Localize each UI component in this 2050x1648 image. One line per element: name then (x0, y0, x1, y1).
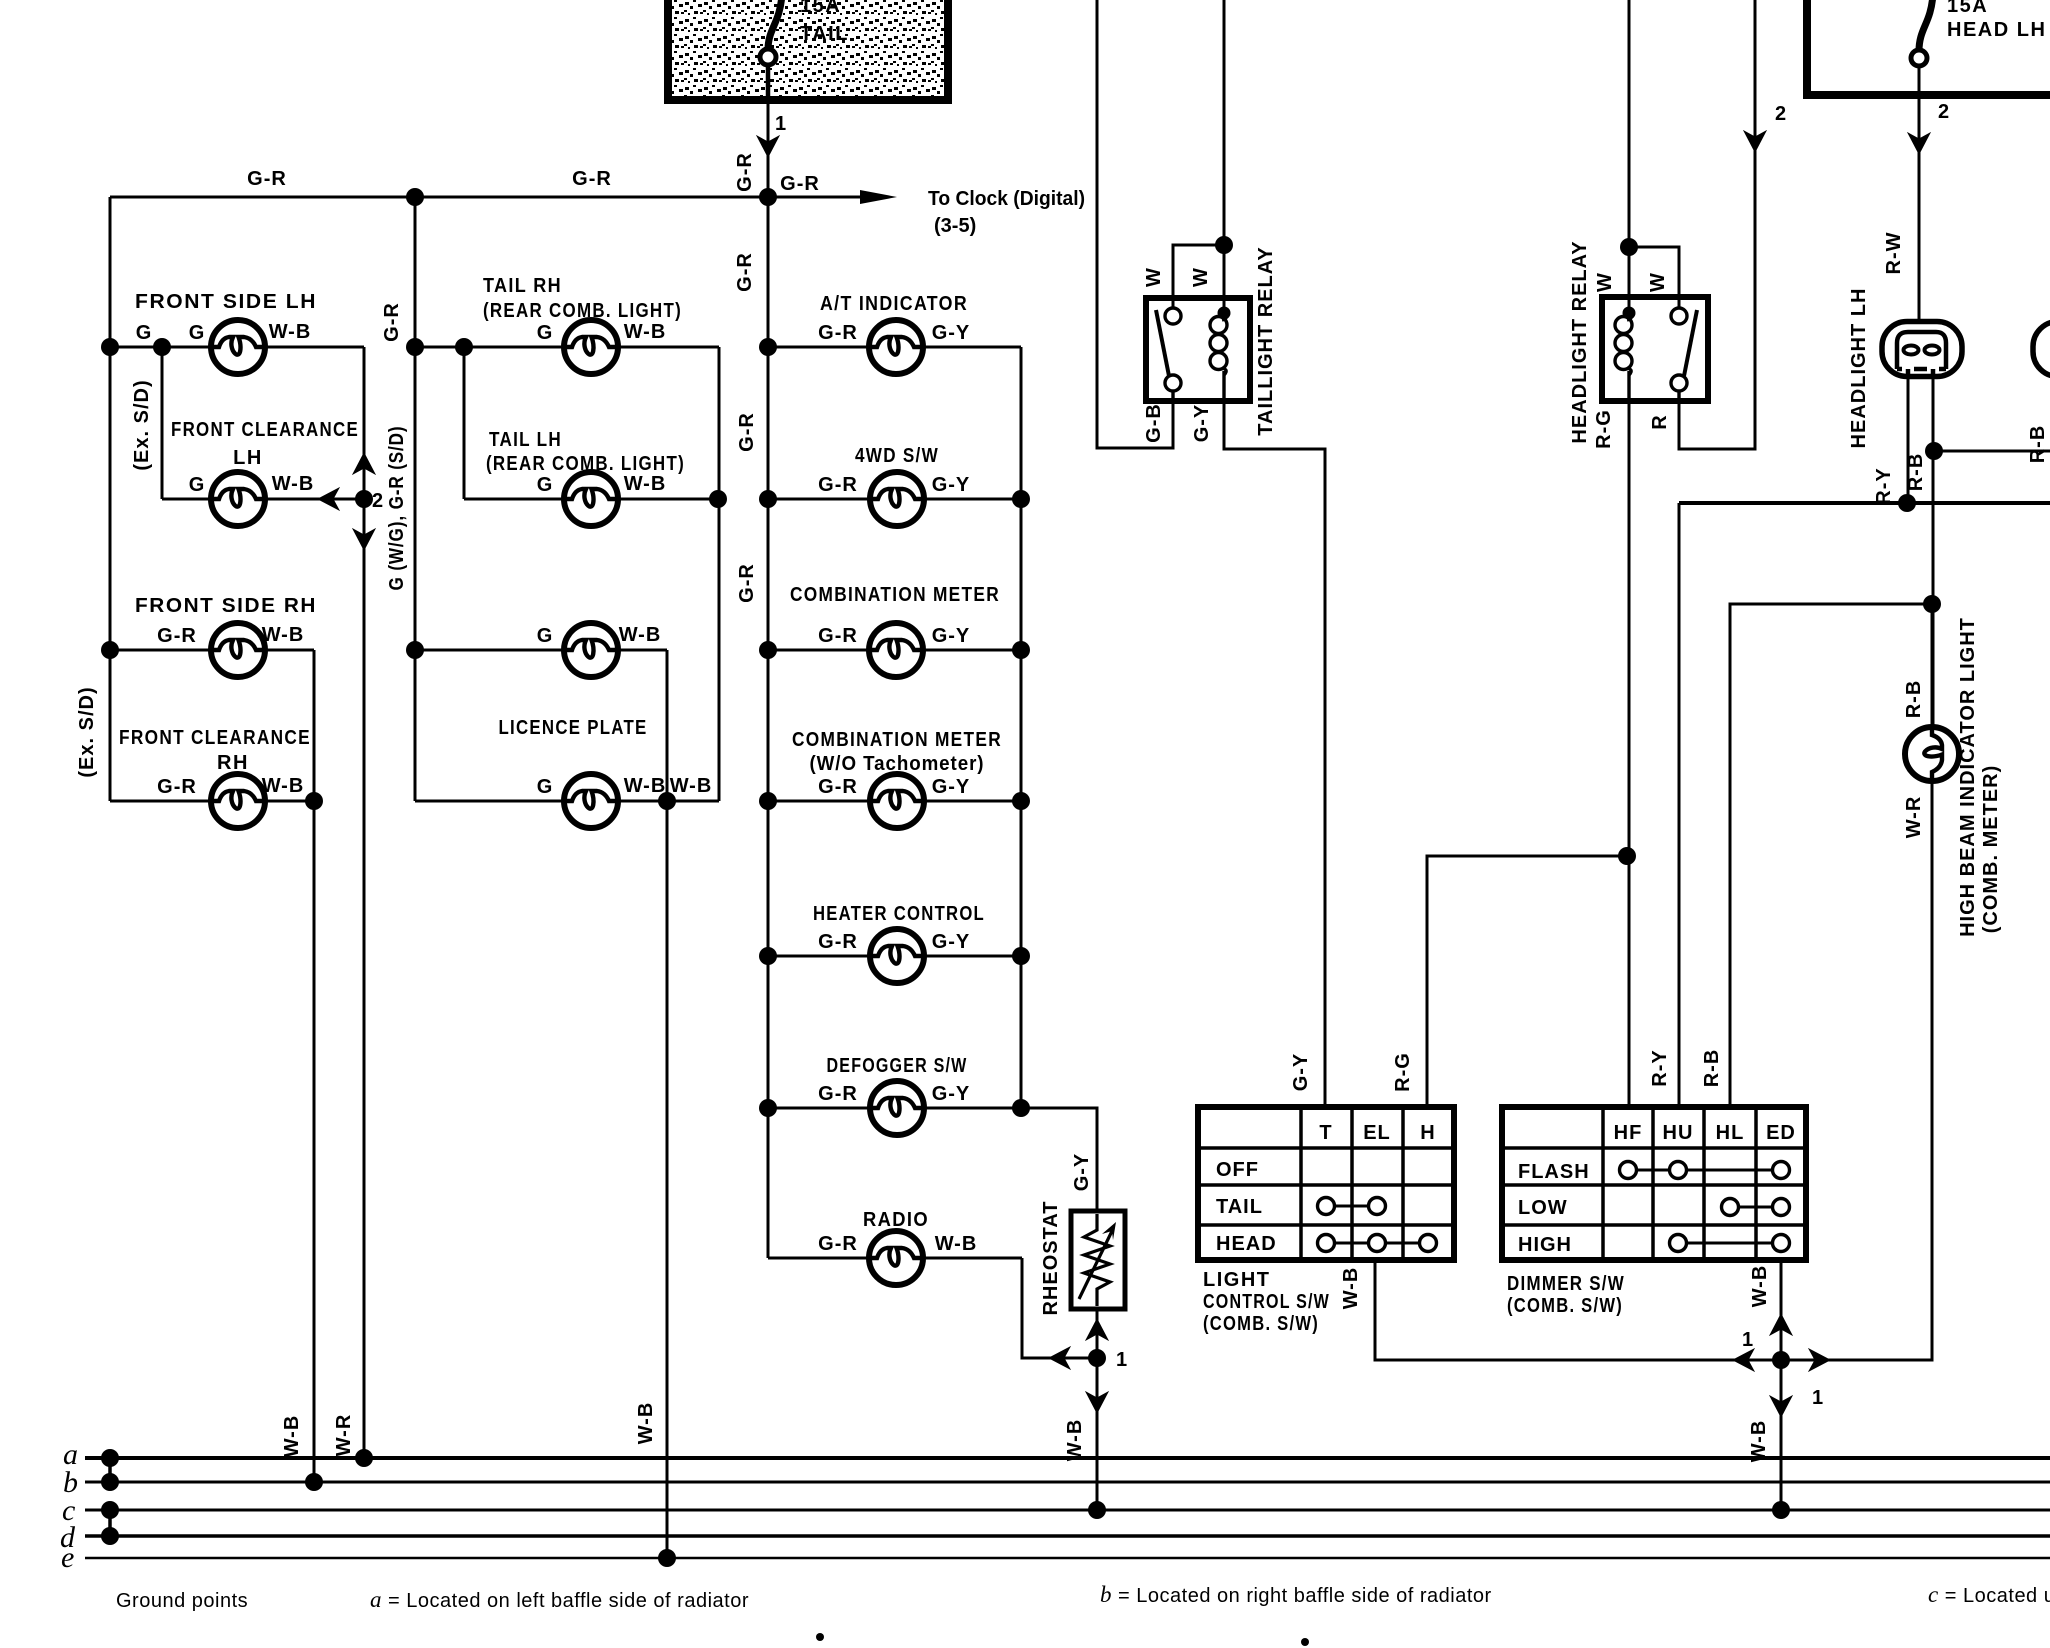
wire dimmer W-B out (1780, 1260, 1783, 1510)
ground bus b (85, 1481, 2050, 1484)
svg-text:HEAD: HEAD (1216, 1233, 1277, 1255)
wire licence upper row (415, 649, 667, 652)
rheostat (1071, 1211, 1125, 1309)
wire headlight relay supply (1628, 0, 1631, 401)
title COMBINATION METER (790, 584, 1000, 606)
wire highbeam out (1781, 781, 1932, 1360)
svg-text:2: 2 (1938, 101, 1950, 123)
light control switch table (1198, 1107, 1454, 1260)
bulb LICENCE upper (564, 623, 618, 677)
svg-text:FLASH: FLASH (1518, 1161, 1590, 1183)
wire R-B lead (1932, 376, 1935, 728)
light table headers (1319, 1122, 1435, 1144)
svg-text:G (W/G), G-R (S/D): G (W/G), G-R (S/D) (386, 426, 408, 591)
node bus r2 (1012, 490, 1030, 508)
svg-text:e: e (61, 1541, 74, 1574)
connector arrow down dimmer (1769, 1395, 1793, 1418)
svg-text:HU: HU (1663, 1122, 1694, 1144)
light table row HEAD (1216, 1233, 1277, 1255)
svg-text:1: 1 (1812, 1387, 1824, 1409)
wire light switch W-B out (1375, 1260, 1781, 1360)
dimmer FLASH contacts (1620, 1162, 1790, 1179)
bulb FRONT SIDE RH (211, 623, 265, 677)
node trunk r1 (759, 338, 777, 356)
svg-text:G-Y: G-Y (932, 322, 971, 344)
svg-text:W-B: W-B (281, 1415, 303, 1458)
bulb FRONT CLEARANCE RH (211, 774, 265, 828)
title FRONT SIDE LH (135, 291, 317, 313)
svg-text:RADIO: RADIO (863, 1209, 929, 1231)
connector arrow right dimmer (1808, 1348, 1831, 1372)
svg-text:W-B: W-B (624, 321, 667, 343)
svg-text:W-B: W-B (670, 775, 713, 797)
svg-text:W-R: W-R (1903, 796, 1925, 839)
labels front clearance LH (189, 473, 315, 496)
node trunk r6 (759, 1099, 777, 1117)
light table HEAD contacts (1318, 1235, 1437, 1252)
svg-text:LOW: LOW (1518, 1197, 1568, 1219)
fuse 15A TAIL label (800, 0, 849, 45)
wire taillight relay supply (1223, 0, 1226, 308)
labels comb meter 2 (818, 776, 970, 798)
svg-text:G-R: G-R (818, 1233, 858, 1255)
connector arrow left on clearance LH (317, 487, 340, 511)
svg-text:DEFOGGER S/W: DEFOGGER S/W (827, 1055, 968, 1077)
node trunk r3 (759, 641, 777, 659)
node trunk r4 (759, 792, 777, 810)
svg-text:R-G: R-G (1593, 409, 1615, 449)
wire licence lower row (415, 800, 719, 803)
connector arrow down at 2 (352, 528, 376, 551)
pin label 1 (775, 113, 787, 135)
svg-text:W-B: W-B (1064, 1419, 1086, 1462)
wire R-G branch to H (1427, 856, 1627, 1107)
wire label W-B dimmer ground (1748, 1420, 1770, 1463)
fuse F2 15A HEAD LH symbol (1911, 0, 1933, 95)
fuse box 15A HEAD LH (1807, 0, 2050, 95)
svg-text:G-Y: G-Y (1191, 404, 1213, 443)
wire heater row (768, 955, 1021, 958)
node bus r3 (1012, 641, 1030, 659)
svg-text:R-B: R-B (1701, 1049, 1723, 1088)
ground link c-d (101, 1501, 119, 1545)
node junction taillight relay (1215, 236, 1233, 254)
svg-text:W-R: W-R (333, 1414, 355, 1457)
svg-text:HEADLIGHT RELAY: HEADLIGHT RELAY (1569, 240, 1591, 443)
svg-text:LIGHT: LIGHT (1203, 1269, 1271, 1291)
node junction front RH left (101, 641, 119, 659)
svg-text:W: W (1647, 272, 1669, 292)
labels tail RH (537, 321, 667, 344)
node junction tail LH right (709, 490, 727, 508)
svg-text:G-Y: G-Y (1071, 1153, 1093, 1192)
svg-text:ED: ED (1766, 1122, 1796, 1144)
node junction licence lower right (658, 792, 676, 810)
svg-text:CONTROL S/W: CONTROL S/W (1203, 1291, 1330, 1313)
bulb FRONT CLEARANCE LH (211, 472, 265, 526)
labels licence upper (537, 624, 662, 647)
label (COMB. METER) (1980, 765, 2002, 934)
wire R-Y lead (1907, 376, 1910, 503)
svg-text:W-B: W-B (1749, 1265, 1771, 1308)
svg-text:HL: HL (1716, 1122, 1745, 1144)
label To Clock (Digital) (928, 188, 1085, 210)
node junction tail RH top (406, 338, 424, 356)
svg-text:HEAD LH: HEAD LH (1947, 19, 2046, 41)
svg-text:G-Y: G-Y (1290, 1053, 1312, 1092)
wire AT indicator row (768, 346, 1021, 349)
svg-text:To Clock (Digital): To Clock (Digital) (928, 188, 1085, 210)
svg-text:COMBINATION METER: COMBINATION METER (790, 584, 1000, 606)
svg-text:G-R: G-R (818, 776, 858, 798)
wire highbeam lead (1931, 604, 1934, 728)
svg-text:1: 1 (775, 113, 787, 135)
svg-text:FRONT SIDE LH: FRONT SIDE LH (135, 291, 317, 313)
wire licence left drop (414, 650, 417, 801)
svg-text:W-B: W-B (635, 1402, 657, 1445)
svg-text:G-Y: G-Y (932, 1083, 971, 1105)
svg-text:HEATER CONTROL: HEATER CONTROL (813, 903, 985, 925)
taillight relay switch (1156, 308, 1181, 401)
wire label R-W (1883, 232, 1905, 275)
svg-text:W: W (1143, 267, 1165, 287)
connector arrow left dimmer (1732, 1348, 1755, 1372)
node junction R-G branch (1618, 847, 1636, 865)
label (3-5) (934, 215, 976, 237)
connector arrow up dimmer (1769, 1313, 1793, 1336)
title FRONT CLEARANCE LH (171, 419, 359, 469)
title FRONT SIDE RH (135, 595, 317, 617)
labels AT indicator (818, 322, 970, 344)
svg-text:R-B: R-B (1903, 680, 1925, 719)
connector arrow 2 left (1743, 130, 1767, 153)
svg-text:LH: LH (233, 447, 263, 469)
headlight relay switch (1671, 308, 1697, 401)
connector arrow 2 right (1907, 132, 1931, 155)
pin label 2 right (1938, 101, 1950, 123)
wire rheostat to ground (1096, 1309, 1099, 1510)
wire label G-B (1143, 403, 1165, 443)
wire label G-Y rheostat (1071, 1153, 1093, 1192)
svg-text:H: H (1420, 1122, 1435, 1144)
wire label R-B above table (1701, 1049, 1723, 1088)
labels tail LH (537, 473, 667, 496)
svg-text:G-Y: G-Y (932, 625, 971, 647)
wire taillight relay link (1173, 245, 1224, 308)
svg-text:R-Y: R-Y (1649, 1049, 1671, 1086)
wire fuse2 to headlight (1918, 66, 1921, 334)
dimmer row HIGH (1518, 1234, 1572, 1256)
label RHEOSTAT (1040, 1200, 1062, 1315)
caption ground points (116, 1590, 248, 1612)
svg-text:(Ex. S/D): (Ex. S/D) (131, 379, 153, 470)
svg-text:G-Y: G-Y (932, 931, 971, 953)
svg-text:TAILLIGHT RELAY: TAILLIGHT RELAY (1255, 246, 1277, 435)
svg-text:G-R: G-R (736, 412, 758, 452)
wire G-Y to light switch (1224, 401, 1325, 1107)
node bus r5 (1012, 947, 1030, 965)
label HEADLIGHT RELAY (1569, 240, 1591, 443)
svg-text:W-B: W-B (1748, 1420, 1770, 1463)
label TAILLIGHT RELAY (1255, 246, 1277, 435)
node ground rheostat on c (1088, 1501, 1106, 1519)
caption b located (1100, 1582, 1492, 1607)
svg-text:T: T (1319, 1122, 1332, 1144)
svg-text:W-B: W-B (624, 473, 667, 495)
svg-text:G: G (537, 322, 554, 344)
dimmer switch table (1502, 1107, 1806, 1260)
node junction headlight relay (1620, 238, 1638, 256)
svg-text:G: G (189, 474, 206, 496)
svg-text:R: R (1649, 414, 1671, 429)
connector arrow up rheostat (1085, 1318, 1109, 1341)
wire label R-G (1593, 409, 1615, 449)
svg-text:2: 2 (1775, 103, 1787, 125)
svg-text:G-R: G-R (818, 474, 858, 496)
bulb TAIL LH (564, 472, 618, 526)
taillight relay box (1146, 298, 1250, 401)
wire label W-B rheostat (1064, 1419, 1086, 1462)
svg-text:(COMB. S/W): (COMB. S/W) (1507, 1295, 1623, 1317)
light table TAIL contacts (1318, 1198, 1386, 1215)
wire label W-B left (281, 1415, 303, 1458)
ground bus a (85, 1456, 2050, 1460)
svg-text:DIMMER S/W: DIMMER S/W (1507, 1273, 1625, 1295)
caption a located (370, 1587, 749, 1612)
svg-text:W-B: W-B (624, 775, 667, 797)
wire label W-R highbeam (1903, 796, 1925, 839)
svg-text:G: G (136, 322, 153, 344)
svg-text:R-B: R-B (1905, 453, 1927, 492)
wire front side RH drop (313, 650, 316, 1482)
wire defogger to rheostat (1021, 1108, 1097, 1211)
bulb COMBINATION METER (869, 623, 923, 677)
light table row OFF (1216, 1159, 1259, 1181)
wire left G-R drop (109, 197, 112, 801)
svg-text:G-R: G-R (157, 625, 197, 647)
node junction tail branch (455, 338, 473, 356)
wire label W headlight 1 (1594, 272, 1616, 292)
svg-text:G-R: G-R (818, 931, 858, 953)
node bus r4 (1012, 792, 1030, 810)
labels comb meter (818, 625, 970, 647)
fuse F1 15A TAIL symbol (760, 0, 782, 100)
wire G-R horizontal bus to clock (110, 196, 860, 199)
bulb RADIO (869, 1231, 923, 1285)
svg-text:15A: 15A (1947, 0, 1988, 17)
wire label R-G above table (1392, 1052, 1414, 1092)
bulb FRONT SIDE LH (211, 320, 265, 374)
svg-text:LICENCE PLATE: LICENCE PLATE (499, 717, 648, 739)
wire licence W-B drop (666, 650, 669, 1558)
wire label G-Y taillight (1191, 404, 1213, 443)
labels 4wd (818, 474, 970, 496)
svg-text:G-R: G-R (734, 252, 756, 292)
wire G-R fuse to junction (767, 100, 770, 197)
svg-text:Ground points: Ground points (116, 1590, 248, 1612)
node junction dimmer (1772, 1351, 1790, 1369)
svg-text:R-Y: R-Y (1873, 467, 1895, 504)
node junction front LH inner (153, 338, 171, 356)
bulb HEATER CONTROL (870, 929, 924, 983)
taillight relay coil (1210, 307, 1231, 402)
headlight LH symbol (1882, 322, 1962, 379)
ground bus e (85, 1557, 2050, 1560)
svg-text:W-B: W-B (619, 624, 662, 646)
svg-text:(3-5): (3-5) (934, 215, 976, 237)
caption c located (1928, 1582, 2050, 1607)
svg-text:2: 2 (372, 490, 384, 512)
dimmer row FLASH (1518, 1161, 1590, 1183)
node junction rheostat (1088, 1349, 1106, 1367)
wire label R-B lead (1905, 453, 1927, 492)
wire front side RH row (110, 649, 314, 652)
wire label R-B highbeam (1903, 680, 1925, 719)
svg-text:W-B: W-B (262, 624, 305, 646)
wire label R-B partial (2027, 425, 2049, 464)
bulb LICENCE lower (564, 774, 618, 828)
svg-text:15A: 15A (800, 0, 841, 17)
svg-text:G-R: G-R (818, 1083, 858, 1105)
title LICENCE PLATE (499, 717, 648, 739)
svg-text:HIGH: HIGH (1518, 1234, 1572, 1256)
svg-text:OFF: OFF (1216, 1159, 1259, 1181)
svg-text:R-W: R-W (1883, 232, 1905, 275)
title A/T INDICATOR (820, 293, 968, 315)
svg-text:G-B: G-B (1143, 403, 1165, 443)
node junction clearance RH (305, 792, 323, 810)
svg-text:(Ex. S/D): (Ex. S/D) (76, 686, 98, 777)
wire branch x364 down (363, 347, 366, 1458)
wire label G-R v2 (736, 412, 758, 452)
node junction front LH left (101, 338, 119, 356)
wire headlight relay link (1629, 247, 1679, 310)
svg-text:R-G: R-G (1392, 1052, 1414, 1092)
bulb A/T INDICATOR (869, 320, 923, 374)
svg-text:HEADLIGHT LH: HEADLIGHT LH (1848, 288, 1870, 449)
wire front side LH row (110, 346, 364, 349)
node junction R-B top (1925, 442, 1943, 460)
wire R-Y to dimmer (1678, 503, 1681, 1107)
svg-text:(REAR COMB. LIGHT): (REAR COMB. LIGHT) (483, 300, 682, 322)
headlight relay box (1602, 297, 1708, 401)
wire G-R main trunk (767, 197, 770, 1258)
svg-text:TAIL: TAIL (800, 23, 849, 45)
pin label 2 (372, 490, 384, 512)
node junction 2 (355, 490, 373, 508)
svg-text:G: G (537, 474, 554, 496)
svg-text:RHEOSTAT: RHEOSTAT (1040, 1200, 1062, 1315)
svg-text:W-B: W-B (262, 775, 305, 797)
node bus r6 (1012, 1099, 1030, 1117)
wire label R-Y above table (1649, 1049, 1671, 1086)
wire label W taillight 1 (1143, 267, 1165, 287)
wire G-R trunk2 drop (414, 197, 417, 801)
label DIMMER SW (1507, 1273, 1625, 1317)
title RADIO (863, 1209, 929, 1231)
headlight relay coil (1615, 307, 1636, 376)
svg-text:FRONT CLEARANCE: FRONT CLEARANCE (119, 727, 311, 749)
wire front clearance RH row (110, 800, 314, 803)
wire tail RH row (415, 346, 719, 349)
wire label G-R vertical above junction (734, 152, 756, 192)
wire comb meter row (768, 649, 1021, 652)
node junction G-R trunk (759, 188, 777, 206)
title TAIL RH (483, 275, 682, 322)
dimmer row LOW (1518, 1197, 1568, 1219)
wire R-B to page edge (1934, 450, 2050, 453)
pin label 1 dimmer a (1742, 1329, 1754, 1351)
wire label G-R v1 (734, 252, 756, 292)
svg-text:G-Y: G-Y (932, 776, 971, 798)
wire label G-R v3 (736, 563, 758, 603)
labels front side LH (136, 321, 312, 344)
svg-text:G-R: G-R (572, 168, 612, 190)
node junction R-Y headlight (1898, 494, 1916, 512)
title DEFOGGER S/W (827, 1055, 968, 1077)
pin label 1 rheostat (1116, 1349, 1128, 1371)
svg-text:G-R: G-R (734, 152, 756, 192)
svg-text:G-R: G-R (157, 776, 197, 798)
node ground W-B on b (305, 1473, 323, 1491)
node ground W-R on a (355, 1449, 373, 1467)
wire label W-B light switch (1340, 1267, 1362, 1310)
wire label G (W/G) G-R (S/D) (386, 426, 408, 591)
node ground dimmer on c (1772, 1501, 1790, 1519)
svg-text:c = Located u: c = Located u (1928, 1582, 2050, 1607)
node junction licence upper left (406, 641, 424, 659)
speck dot 1 (816, 1633, 824, 1641)
wire front clearance LH branch (162, 347, 364, 499)
title 4WD S/W (855, 445, 939, 467)
node ground licence on e (658, 1549, 676, 1567)
label HIGH BEAM INDICATOR LIGHT (1957, 617, 1979, 937)
ground bus letters (60, 1438, 78, 1574)
svg-text:G: G (537, 776, 554, 798)
bulb DEFOGGER S/W (870, 1081, 924, 1135)
node junction G-R second branch (406, 188, 424, 206)
labels defogger (818, 1083, 970, 1105)
wire radio row (768, 1257, 1022, 1260)
svg-text:G-R: G-R (247, 168, 287, 190)
bulb 4WD S/W (870, 472, 924, 526)
svg-text:TAIL LH: TAIL LH (489, 429, 562, 451)
wire comb meter2 row (768, 800, 1021, 803)
wire label W-B licence (635, 1402, 657, 1445)
speck dot 2 (1301, 1638, 1309, 1646)
headlight RH partial symbol (2033, 322, 2050, 377)
svg-text:G-R: G-R (780, 173, 820, 195)
title TAIL LH (486, 429, 685, 475)
svg-text:(REAR COMB. LIGHT): (REAR COMB. LIGHT) (486, 453, 685, 475)
svg-text:W: W (1594, 272, 1616, 292)
wire G-B top feed (1097, 0, 1173, 448)
ground bus c (85, 1509, 2050, 1512)
title FRONT CLEARANCE RH (119, 727, 311, 774)
svg-text:W-B: W-B (269, 321, 312, 343)
svg-text:1: 1 (1116, 1349, 1128, 1371)
wire radio out (1022, 1258, 1097, 1358)
svg-text:G-R: G-R (381, 302, 403, 342)
dimmer LOW contacts (1722, 1199, 1790, 1216)
wire tail W-B right drop (718, 347, 721, 801)
ground bus d (85, 1534, 2050, 1538)
wire label G-R left (247, 168, 287, 190)
wire label R (1649, 414, 1671, 429)
svg-text:(COMB. METER): (COMB. METER) (1980, 765, 2002, 934)
svg-text:G-R: G-R (736, 563, 758, 603)
pin label 2 left (1775, 103, 1787, 125)
